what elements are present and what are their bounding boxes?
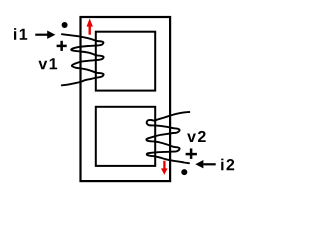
core window top [96,32,155,91]
polarity dot winding 2 [181,169,187,175]
flux arrow phi2 (red, down, right leg) [161,161,168,175]
current arrow i2 (black, left) [195,160,215,168]
label i1 [14,28,27,40]
current arrow i1 (black, right) [35,31,55,39]
core window bottom [96,107,155,166]
plus sign v2 [186,148,197,159]
label i2 [221,159,234,171]
winding L2 (right coil with leads) [146,112,189,163]
plus sign v1 [57,41,67,51]
label v1 [38,58,57,69]
winding L1 (left coil with leads) [62,34,104,85]
label v2 [187,131,206,142]
flux arrow phi1 (red, up, left leg) [87,18,93,34]
core outer outline [81,17,171,181]
polarity dot winding 1 [62,22,68,28]
